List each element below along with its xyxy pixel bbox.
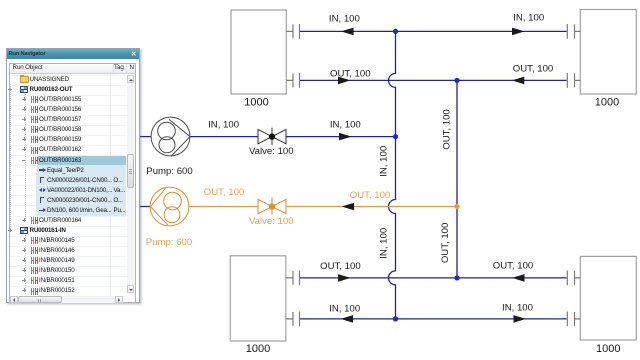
junction node H4/V2 [454, 275, 459, 280]
svg-text:1000: 1000 [595, 97, 619, 109]
junction node H2/V2 [454, 78, 459, 83]
header row [10, 64, 135, 74]
svg-text:IN, 100: IN, 100 [330, 119, 361, 130]
flow arrow H1 right [512, 28, 525, 36]
svg-text:OUT, 100: OUT, 100 [330, 68, 371, 79]
nozzle T3 OUT [286, 271, 299, 286]
svg-text:Valve: 100: Valve: 100 [249, 216, 294, 227]
nozzle T2 OUT [567, 73, 580, 88]
svg-text:IN, 100: IN, 100 [378, 228, 389, 259]
svg-text:IN, 100: IN, 100 [513, 12, 544, 23]
valve VA1 (blue circuit) [258, 128, 286, 145]
nozzle T4 OUT [567, 271, 580, 286]
nozzle T1 OUT [286, 73, 299, 88]
wire pump suction stub (blue) [139, 136, 152, 138]
wire orange valve to V2 [286, 206, 457, 208]
wire H1 top IN header [300, 30, 567, 32]
flow arrow orange line [342, 203, 355, 211]
flow arrow H4 left [338, 274, 351, 282]
flow arrow pump line [339, 133, 352, 141]
wire H2 top OUT line [300, 79, 567, 81]
svg-text:1000: 1000 [244, 97, 268, 109]
flow arrow H4 right [512, 274, 525, 282]
svg-text:OUT, 100: OUT, 100 [204, 187, 245, 198]
svg-text:Valve: 100: Valve: 100 [249, 146, 294, 157]
nozzle T4 IN [567, 312, 580, 327]
svg-text:OUT, 100: OUT, 100 [350, 190, 391, 201]
svg-text:OUT, 100: OUT, 100 [513, 63, 554, 74]
junction node pump line/V1 [393, 134, 398, 139]
junction node orange/V2 [454, 204, 459, 209]
wire orange pump to valve [189, 206, 258, 208]
pump P2 (orange circuit) [150, 187, 189, 226]
junction node H1/V1 [393, 29, 398, 34]
nozzle T1 IN [286, 24, 299, 39]
vertical scrollbar [127, 75, 134, 293]
tank T3 (bottom-left, 1000) [230, 256, 285, 341]
svg-text:IN, 100: IN, 100 [379, 146, 390, 177]
horizontal scrollbar [10, 296, 123, 303]
wire blue pump discharge to valve [190, 136, 258, 138]
wire valve to V1 junction [286, 136, 396, 138]
nozzle T2 IN [567, 24, 580, 39]
title bar [7, 49, 139, 59]
junction node H5/V1 [393, 316, 398, 321]
svg-text:1000: 1000 [246, 343, 270, 355]
Run Navigator panel [6, 48, 140, 303]
pump P1 (blue circuit) [151, 117, 190, 156]
faint tag column line in rows [110, 74, 111, 296]
wire H4 bottom OUT line [300, 277, 567, 279]
svg-text:IN, 100: IN, 100 [208, 119, 239, 130]
wire orange pump left stub (blue) [139, 206, 151, 208]
valve VA2 (orange circuit) [258, 198, 286, 215]
tree dotted connectors [10, 84, 12, 229]
svg-text:Pump: 600: Pump: 600 [146, 237, 192, 248]
flow arrow H5 left [341, 315, 354, 323]
svg-text:IN, 100: IN, 100 [329, 303, 360, 314]
orange labels [146, 187, 390, 248]
svg-text:OUT, 100: OUT, 100 [320, 261, 361, 272]
wire V2 OUT riser [456, 80, 458, 278]
svg-text:1000: 1000 [596, 343, 620, 355]
tank T2 (top-right, 1000) [580, 10, 636, 95]
list control [9, 63, 136, 303]
tank T1 (top-left, 1000) [231, 10, 286, 94]
svg-text:OUT, 100: OUT, 100 [493, 260, 534, 271]
wire H5 bottom IN line [300, 318, 567, 320]
svg-text:OUT, 100: OUT, 100 [440, 223, 451, 264]
svg-text:IN, 100: IN, 100 [329, 13, 360, 24]
flow arrow H2 right [512, 77, 525, 85]
svg-text:OUT, 100: OUT, 100 [441, 109, 452, 150]
svg-text:Pump: 600: Pump: 600 [146, 166, 192, 177]
nozzle T3 IN [286, 312, 299, 327]
tree rows [7, 49, 141, 304]
svg-text:IN, 100: IN, 100 [502, 302, 533, 313]
tank T4 (bottom-right, 1000) [580, 256, 636, 340]
flow arrow H5 right [514, 315, 527, 323]
wire V1 IN riser with jump arcs [389, 31, 396, 319]
flow arrow H2 left [338, 77, 351, 85]
flow arrow H1 left [341, 28, 354, 36]
